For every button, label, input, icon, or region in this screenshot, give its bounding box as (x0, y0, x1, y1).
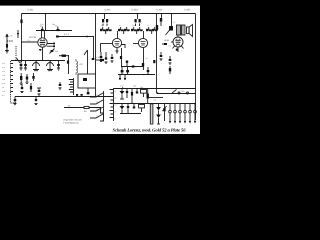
tube V3 UABC80 (133, 31, 148, 60)
fuse F2 (187, 92, 189, 94)
capacitor C2 (55, 25, 59, 32)
svg-text:350: 350 (133, 85, 136, 88)
electrolytic C22 (126, 67, 129, 75)
capacitor C30 (133, 103, 135, 109)
svg-text:4 W: 4 W (153, 99, 156, 102)
svg-text:0,1: 0,1 (119, 24, 121, 27)
tube socket comb P1 (110, 88, 117, 121)
svg-text:Uit gemeten met 220: Uit gemeten met 220 (63, 119, 82, 122)
svg-text:170: 170 (168, 45, 171, 48)
wire detector bus (118, 74, 155, 76)
heater H5 (189, 104, 192, 124)
speaker SP1 (187, 25, 193, 37)
heater H4 (184, 104, 187, 124)
wire vertical long (95, 14, 97, 75)
capacitor C29 (127, 103, 129, 113)
switch S2 (84, 50, 88, 74)
svg-text:U 301: U 301 (27, 9, 34, 12)
svg-text:50µ: 50µ (140, 86, 143, 89)
heater H2 (174, 104, 177, 124)
svg-text:g 10: g 10 (2, 82, 5, 85)
electrolytic C21 (121, 67, 124, 75)
svg-text:g2: g2 (115, 97, 117, 100)
capacitor C38 (99, 52, 102, 62)
svg-text:f5: f5 (115, 118, 116, 121)
capacitor C24 (160, 52, 163, 60)
capacitor C8 (57, 61, 60, 70)
svg-text:1n: 1n (40, 25, 42, 28)
svg-text:+7: +7 (181, 49, 183, 52)
pickup resistor R10 (64, 105, 101, 114)
svg-text:1n: 1n (55, 25, 57, 28)
capacitor C32 (92, 58, 95, 60)
left frame wire (21, 14, 23, 63)
svg-text:a 12: a 12 (2, 62, 5, 65)
resistor R11 (76, 94, 78, 96)
heater H6 (194, 104, 197, 124)
tuner socket comb P2 (69, 78, 74, 95)
capacitor C26 (126, 88, 128, 98)
capacitor C12 (26, 74, 29, 83)
tube V1 UCC85 (21, 31, 55, 62)
capacitor C11 (59, 82, 62, 89)
svg-text:UCC85: UCC85 (29, 36, 37, 39)
filament resistor R19 (163, 104, 165, 122)
svg-text:47k: 47k (101, 24, 104, 27)
svg-text:U 302: U 302 (104, 9, 111, 12)
capacitor C33 (126, 61, 128, 67)
diode D3 (120, 103, 125, 113)
svg-text:5,2 V: 5,2 V (64, 33, 70, 36)
rectifier arrow (163, 106, 167, 111)
svg-text:0,1: 0,1 (146, 57, 149, 60)
fuse F1 (178, 92, 180, 94)
band switch fan S4 (90, 91, 104, 120)
resistor R4 (96, 56, 104, 62)
capacitor C35 (32, 73, 34, 81)
heater H1 (169, 104, 172, 124)
capacitor C34 (132, 65, 135, 67)
svg-text:U 305: U 305 (184, 9, 191, 12)
capacitor C28 (136, 88, 138, 94)
svg-text:4Ω: 4Ω (84, 110, 87, 113)
capacitor C39 (104, 52, 107, 63)
resistor R7 (162, 43, 167, 45)
resistor R8 (169, 66, 171, 74)
svg-text:k 15: k 15 (2, 70, 5, 73)
wire V2 anode chain (120, 48, 122, 67)
coil L1 (76, 59, 84, 75)
mains switch S3 (157, 90, 196, 94)
wire box to fan (95, 88, 97, 97)
resistor R2 (20, 73, 23, 84)
wire PSU lower (120, 113, 141, 115)
rectifier D5 (156, 115, 161, 125)
component cluster at 131 (131, 24, 143, 34)
resistor R17 (30, 83, 32, 92)
resistor R13 (131, 88, 133, 103)
component cluster at 118 (118, 24, 130, 34)
svg-text:240: 240 (10, 35, 13, 38)
wire antenna to tuner (7, 40, 13, 42)
capacitor C23 (147, 67, 150, 75)
svg-text:k 8: k 8 (2, 86, 4, 89)
wire mains stub (148, 97, 163, 99)
bottom letterbox bar (0, 134, 200, 141)
wire coupling (122, 66, 144, 68)
top letterbox bar (0, 0, 200, 6)
trimmer capacitor C3 (50, 49, 59, 54)
power transformer T4 (150, 104, 153, 124)
wire AGC bus (15, 96, 114, 98)
svg-text:U 3011: U 3011 (131, 9, 139, 12)
component cluster at 100 (100, 24, 112, 34)
svg-text:a1: a1 (115, 90, 117, 93)
svg-text:27,4: 27,4 (27, 39, 30, 42)
FM shield wall bottom (11, 102, 17, 104)
antenna A1 (5, 34, 9, 53)
capacitor C20 (111, 54, 114, 62)
connector J1 (100, 113, 104, 121)
cathode blob V4 (176, 49, 178, 51)
FM section bus wire (11, 60, 65, 62)
svg-text:g 31: g 31 (2, 66, 5, 69)
resistor R18 (67, 55, 69, 74)
shield pin ticks (11, 64, 14, 92)
tube V4 UL84 (171, 35, 184, 52)
svg-text:1 k: 1 k (100, 49, 102, 52)
svg-text:a 85: a 85 (2, 78, 5, 81)
svg-text:2 W: 2 W (120, 85, 123, 88)
svg-text:f 2,4: f 2,4 (2, 74, 5, 77)
IF transformer T2 (135, 14, 141, 27)
resistor R9 (147, 88, 149, 103)
svg-text:V wisselspanning: V wisselspanning (63, 122, 78, 125)
svg-text:220: 220 (181, 90, 185, 93)
band switch S1 (17, 58, 21, 63)
svg-text:70: 70 (173, 21, 175, 24)
svg-text:0,1: 0,1 (147, 24, 149, 27)
capacitor C10 (37, 88, 41, 95)
svg-text:b 2: b 2 (2, 94, 4, 97)
junction tick (86, 36, 88, 38)
resistor R20 (20, 20, 22, 24)
output transformer T3 (169, 14, 185, 36)
resistor R12 (81, 94, 83, 96)
capacitor C4 (20, 61, 23, 70)
heater H3 (179, 104, 182, 124)
grid wire top FM (36, 30, 72, 32)
chassis box FM unit (78, 74, 96, 94)
pin label column (2, 62, 5, 97)
svg-text:f4: f4 (115, 111, 116, 114)
variable capacitor C7 rotor (47, 61, 54, 71)
wire right column (156, 14, 158, 94)
HT bus wire (114, 88, 196, 90)
component cluster at 146 (146, 24, 158, 34)
diode D1 (17, 30, 19, 38)
svg-text:U 303: U 303 (156, 9, 163, 12)
resistor R3 (160, 14, 162, 27)
svg-text:56p: 56p (132, 24, 135, 27)
FM tuner shield dashed wall (15, 46, 17, 61)
svg-text:12p: 12p (55, 50, 59, 53)
capacitor C36 (20, 84, 23, 93)
junction dots (36, 13, 172, 104)
top B+ bus wire (22, 13, 196, 15)
resistor R5 (142, 60, 144, 70)
capacitor C9 (14, 97, 17, 105)
variable capacitor C6 rotor (33, 61, 40, 71)
resistor R16 (153, 60, 155, 63)
diode D2 (120, 88, 125, 99)
svg-text:Schaub Lorenz, mod. Gold 52 a: Schaub Lorenz, mod. Gold 52 a Plate 56 (113, 127, 187, 132)
IF transformer T1 (102, 14, 108, 27)
tube V2 UF89 (101, 31, 126, 53)
ground ticks under AF bus (120, 75, 125, 79)
FM shield wall lower (10, 61, 12, 103)
wire drop x45 (45, 14, 47, 31)
resistor R1 (59, 55, 69, 57)
resistor R14 (57, 29, 60, 31)
wire mid horizontal (57, 37, 94, 59)
svg-text:s 14: s 14 (2, 90, 5, 93)
rectifier D4 (156, 104, 161, 115)
capacitor C37 (34, 97, 37, 105)
electrolytic C31 (139, 105, 145, 113)
resistor R15 (56, 36, 59, 38)
electrolytic C27 (140, 86, 147, 97)
transformer tap arrow (166, 29, 171, 35)
svg-text:470: 470 (80, 63, 84, 66)
capacitor C1 (40, 25, 44, 32)
svg-text:UL84: UL84 (164, 39, 170, 42)
PSU bus wire (114, 103, 196, 105)
resistor R6 (156, 25, 158, 30)
right frame wire (195, 14, 197, 121)
capacitor C25 (169, 56, 172, 64)
capacitor C5 (24, 61, 27, 70)
